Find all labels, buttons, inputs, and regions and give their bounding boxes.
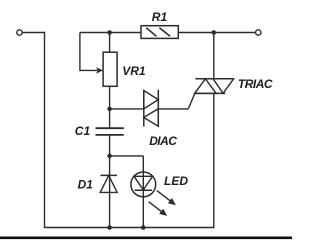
wire: VR1 bottom lead to C1 (109, 86, 111, 128)
diac DIAC left bar (143, 90, 145, 127)
terminal T2 (right output) (256, 30, 261, 35)
resistor R1 body (141, 26, 178, 39)
node: LED bottom junction (141, 225, 146, 230)
wire: top middle (wiper corner through VR1 node to R1) (80, 32, 141, 34)
terminal T1 (left input) (17, 30, 22, 35)
wire: TRIAC gate diagonal (188, 93, 195, 109)
svg-text:C1: C1 (75, 124, 91, 138)
led LED light arrow upper (157, 191, 171, 202)
arrowhead: VR1 wiper (96, 67, 103, 74)
svg-text:D1: D1 (78, 178, 94, 192)
wire: C1 bottom to D1 node (109, 135, 111, 176)
capacitor C1 bottom plate (96, 134, 124, 136)
led LED cathode bar (135, 189, 152, 191)
triac TRIAC bottom bar (195, 92, 226, 94)
triac TRIAC top bar (195, 78, 233, 80)
wire: R1 right lead to node (178, 32, 214, 34)
node: C1/D1/LED junction (107, 154, 112, 159)
diode D1 triangle (100, 175, 117, 192)
svg-text:DIAC: DIAC (149, 134, 177, 148)
potentiometer VR1 body (103, 52, 117, 86)
wire: DIAC left lead (110, 108, 144, 110)
node: DIAC/C1 junction (107, 107, 112, 112)
wire: top node to right terminal (214, 32, 256, 34)
wire: VR1 wiper loop (80, 33, 98, 71)
diac DIAC right bar (157, 90, 159, 127)
wire: right vertical (TRIAC MT1 to bottom rail) (213, 93, 215, 228)
wire: left rail vertical (44, 32, 46, 228)
led LED circle (131, 172, 156, 197)
diac DIAC lower triangle (144, 109, 159, 127)
led LED triangle (134, 176, 153, 190)
node: VR1 top junction (107, 30, 112, 35)
wire: VR1 top lead (109, 33, 111, 53)
capacitor C1 top plate (96, 127, 124, 129)
svg-text:TRIAC: TRIAC (238, 77, 273, 91)
resistor R1 diagonal marks (146, 28, 170, 37)
diode D1 cathode bar (101, 174, 118, 176)
svg-text:R1: R1 (152, 10, 168, 24)
triac TRIAC right triangle (213, 79, 234, 94)
wire: LED branch horizontal (110, 155, 144, 157)
wire: D1 through and to bottom rail (109, 175, 111, 227)
svg-text:VR1: VR1 (122, 64, 146, 78)
wire: bottom rail (44, 227, 214, 229)
led LED light arrow lower (149, 202, 162, 212)
diac DIAC upper triangle (144, 91, 159, 109)
node: D1 bottom junction (107, 225, 112, 230)
border bottom bar (0, 237, 292, 240)
wire: left terminal to left rail corner (22, 32, 44, 34)
wire: TRIAC MT2 to top node (213, 33, 215, 79)
svg-text:LED: LED (164, 174, 188, 188)
triac TRIAC left triangle (195, 79, 217, 94)
wire: LED branch vertical (142, 156, 144, 228)
wire: DIAC right lead (158, 108, 188, 110)
node: TRIAC top junction (212, 30, 217, 35)
